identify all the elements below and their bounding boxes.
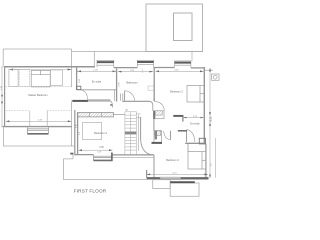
wardrobe B master: [19, 69, 29, 86]
chimney / rooflight: [174, 13, 193, 41]
landing wall connector: [153, 119, 155, 131]
wall master/ensuite: [76, 67, 78, 90]
corridor top wall dark: [178, 130, 187, 132]
wardrobe A master: [9, 69, 18, 86]
landing wall end dark tick: [110, 104, 112, 106]
stair handrail: [138, 115, 140, 152]
svg-text:Bedroom 4: Bedroom 4: [166, 158, 179, 162]
bottom eaves line left: [3, 127, 74, 146]
landing left boundary line: [71, 102, 73, 146]
wardrobe C master: [50, 70, 62, 86]
airing cupboard hatched: [155, 111, 162, 115]
top wall between dormer2 and dormer3: [154, 67, 175, 69]
wall bathroom/bedroom2: [153, 68, 155, 101]
porch rect A: [153, 180, 171, 189]
landing band link to stairs: [113, 113, 125, 115]
dormer window 3: [174, 61, 191, 68]
master width dim line: [6, 120, 72, 122]
bay recess side right: [46, 111, 48, 127]
bathroom dim extension: [142, 68, 144, 73]
svg-text:En-suite: En-suite: [190, 122, 200, 126]
roof outline upper block: [146, 4, 203, 52]
svg-text:Bathroom: Bathroom: [126, 81, 137, 85]
dashed ceiling line master lower: [6, 110, 29, 112]
wall stub right of bedroom2 door: [182, 116, 184, 122]
right vertical dimension line: [209, 68, 211, 178]
bedroom4 dim line: [147, 173, 208, 175]
svg-text:4.50: 4.50: [99, 146, 104, 149]
landing wall left (master door wall): [72, 100, 111, 102]
bedroom3 bottom wall right: [112, 154, 154, 156]
chimney breast landing: [153, 111, 155, 119]
bedroom3 left wall: [77, 112, 79, 154]
ensuite2 bottom wall: [185, 142, 204, 144]
master door posts dark: [73, 100, 89, 102]
shower corner ensuite: [77, 86, 81, 89]
bedroom2 door post: [153, 98, 155, 101]
bedroom3 bottom wall left: [75, 154, 94, 156]
right exterior wall lower: [205, 144, 207, 178]
bed4 wall stub: [187, 144, 189, 152]
bedroom4 door swing arc: [164, 131, 171, 140]
dormer window 2: [137, 60, 154, 67]
top wall right of dormer3: [191, 67, 205, 69]
dormer window 1: [97, 60, 115, 67]
bedroom3 wardrobe band: [78, 112, 114, 117]
bathroom door posts: [119, 94, 121, 101]
bedroom2 dim line: [156, 70, 204, 72]
bathroom door swing arc: [125, 91, 135, 101]
bathroom toilet: [148, 86, 154, 90]
bedroom2 bottom wall dark: [173, 115, 183, 117]
bathroom dim line: [118, 71, 153, 73]
svg-text:FIRST FLOOR: FIRST FLOOR: [74, 188, 107, 193]
master bay window: [27, 127, 48, 133]
lower eaves outline step: [72, 155, 74, 159]
roof valley line: [71, 49, 73, 87]
bottom wall inner line: [112, 156, 154, 158]
bedroom4 bottom wall right dark: [181, 177, 209, 179]
right vertical dim line 2: [215, 138, 217, 178]
svg-text:8.23: 8.23: [210, 116, 213, 121]
bedroom4 bed: [188, 152, 206, 170]
eaves step at x94: [93, 52, 95, 67]
dashed ceiling line master upper: [5, 85, 71, 87]
top wall master bedroom: [4, 66, 95, 68]
porch rect B: [170, 183, 199, 196]
left exterior wall: [4, 67, 6, 127]
svg-text:En-suite: En-suite: [92, 79, 102, 83]
roof eaves line left section: [3, 49, 71, 67]
ensuite2 door leaf: [186, 130, 188, 142]
bay recess side left: [29, 111, 31, 127]
wall ensuite/bathroom: [116, 68, 118, 101]
landing wall curve B: [150, 101, 153, 105]
airing cupboard outline: [153, 111, 164, 119]
bedroom3 bay window: [94, 155, 112, 161]
bedroom3 dim line: [79, 149, 113, 151]
master bedroom bottom wall: [3, 126, 72, 128]
wall step x74.8: [74, 110, 76, 155]
bedroom4 door leaf: [169, 131, 171, 140]
bedroom2 bed: [187, 86, 204, 103]
bedroom4 window bottom: [160, 177, 180, 179]
left vertical dimension line: [1, 66, 3, 127]
bedroom3 bed: [83, 123, 102, 140]
landing wall right segment: [122, 100, 149, 102]
staircase: [125, 112, 141, 155]
ensuite2 door swing arc: [187, 130, 195, 142]
bedroom2 door swing arc: [155, 101, 165, 110]
master bed: [31, 70, 50, 87]
landing south wall dark: [152, 142, 163, 144]
landing wall curve A: [110, 101, 112, 108]
bedroom4 left wall stub: [146, 170, 148, 177]
ensuite bottom wall: [77, 89, 117, 91]
bedroom4 bottom wall left dark: [147, 177, 161, 179]
svg-text:Bedroom 3: Bedroom 3: [94, 131, 107, 135]
dashed ceiling line master lower right: [47, 110, 72, 112]
svg-text:Bedroom 2: Bedroom 2: [170, 90, 183, 94]
ensuite2 dim line: [183, 117, 203, 119]
right exterior wall upper: [203, 67, 205, 144]
stairs dark mid landing: [125, 132, 136, 135]
wall step x154 lower: [153, 155, 155, 180]
master door swing arc: [81, 90, 88, 101]
master top dim line: [9, 69, 71, 71]
roof eaves line right section: [72, 51, 203, 53]
ensuite dim line: [78, 70, 117, 72]
lower cupboard block: [154, 131, 162, 143]
chimney drop line: [191, 52, 193, 62]
stairwell right wall: [140, 117, 142, 140]
bathroom door leaf: [124, 91, 126, 101]
curved wall bottom of stairs: [141, 140, 154, 156]
svg-text:Master Bedroom: Master Bedroom: [28, 93, 47, 97]
shower tray ensuite2: [199, 138, 205, 144]
top wall between dormer1 and dormer2: [114, 67, 138, 69]
porch dark bar: [170, 181, 195, 183]
flue box outside right wall: [205, 70, 219, 80]
